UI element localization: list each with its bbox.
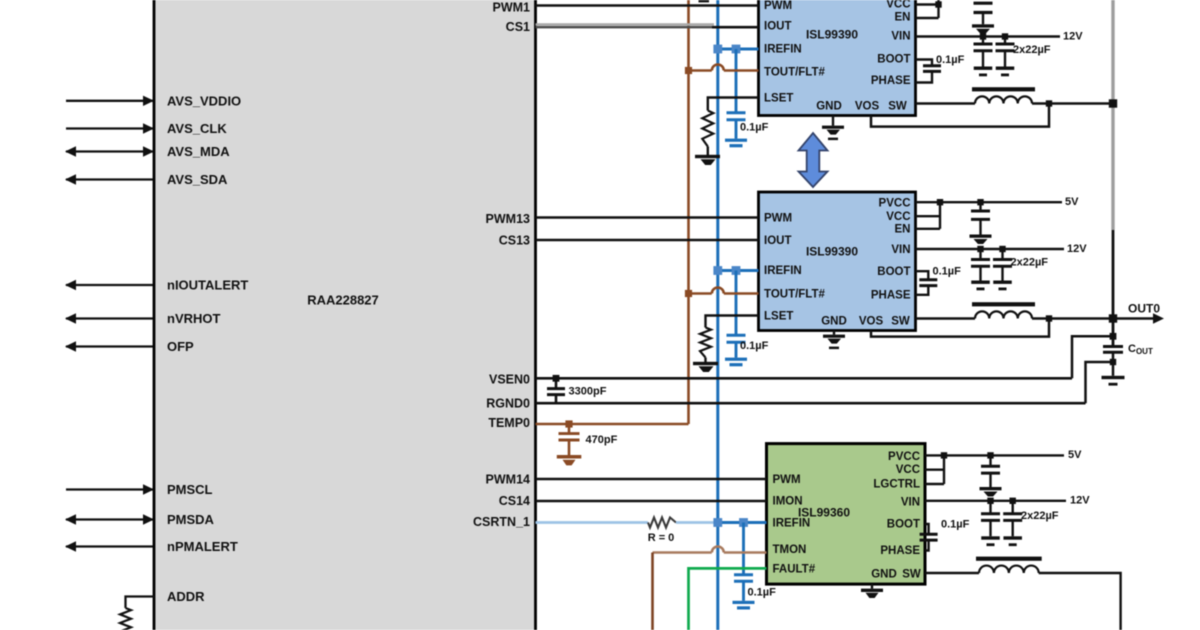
- ground power gnd (U3 GND): [823, 335, 845, 350]
- label ISL99360 (U4): [798, 506, 850, 520]
- pin label RGND0: [486, 397, 530, 411]
- pin label CS1: [506, 20, 530, 34]
- wire hop over blue bus (U3 TOUT): [712, 288, 724, 294]
- pin label TOUT/FLT# (U3): [764, 289, 826, 301]
- svg-text:5V: 5V: [1068, 449, 1082, 461]
- ground signal gnd blue (U2 IREFIN cap): [725, 120, 747, 148]
- pin label OFP: [167, 339, 194, 354]
- svg-text:nIOUTALERT: nIOUTALERT: [167, 278, 248, 293]
- pin label PWM13: [486, 212, 531, 226]
- svg-text:BOOT: BOOT: [877, 54, 910, 66]
- pin label SW (U3): [891, 316, 910, 328]
- svg-text:0.1µF: 0.1µF: [740, 122, 769, 134]
- arrowhead OUT0: [1153, 313, 1164, 323]
- svg-text:PWM: PWM: [764, 0, 792, 12]
- pin label VIN (U3): [891, 244, 910, 256]
- junction IREFIN cap branch (U3): [732, 266, 741, 275]
- wire L14 out: [1039, 573, 1121, 630]
- wire VCC stub (U4): [925, 469, 944, 471]
- wire PWM13 to U3: [536, 216, 759, 218]
- svg-text:470pF: 470pF: [586, 434, 618, 446]
- wire AVS_SDA with arrow: [65, 174, 153, 184]
- pin label PHASE (U3): [871, 290, 911, 302]
- svg-text:CS13: CS13: [499, 234, 530, 248]
- svg-text:PVCC: PVCC: [888, 451, 920, 463]
- wire R-LSET to gnd (U2): [707, 147, 709, 156]
- pin label SW (U2): [888, 101, 907, 113]
- wire TOUT/FLT brown stub (U2): [724, 69, 759, 72]
- net label OUT0: [1128, 302, 1160, 316]
- svg-text:AVS_SDA: AVS_SDA: [167, 172, 228, 187]
- junction VIN cap b (U3): [999, 246, 1005, 252]
- pin label IMON (U4): [773, 496, 803, 508]
- capacitor C-VIN-a 2x22uF (U2): [974, 37, 993, 67]
- pin label ADDR: [167, 589, 205, 604]
- ground power gnd (U2 LSET): [695, 155, 720, 165]
- wire ADDR: [126, 597, 155, 609]
- wire IREFIN blue bus vertical: [716, 0, 719, 630]
- wire PWM1 to U2: [536, 4, 759, 6]
- svg-text:ISL99390: ISL99390: [806, 28, 858, 42]
- svg-text:LSET: LSET: [764, 93, 793, 105]
- svg-text:12V: 12V: [1067, 243, 1087, 255]
- capacitor C-5V (U2) upper plate: [974, 3, 993, 12]
- junction VIN cap b (U2): [1002, 33, 1008, 39]
- wire R-LSET to gnd (U3): [704, 358, 706, 363]
- pin label LGCTRL (U4): [873, 479, 920, 491]
- IC U2 ISL99390 power stage body: [759, 0, 916, 116]
- svg-text:12V: 12V: [1063, 31, 1083, 43]
- svg-text:VIN: VIN: [891, 244, 910, 256]
- value label 0.1uF (U3 IREFIN cap): [740, 340, 769, 352]
- svg-text:CS1: CS1: [506, 20, 530, 34]
- wire VCC/EN bracket vertical (U2): [937, 0, 939, 18]
- svg-text:AVS_MDA: AVS_MDA: [167, 144, 230, 159]
- wire BOOT cap to PHASE (U3): [916, 286, 929, 295]
- junction VIN cap b (U4): [1010, 498, 1016, 504]
- svg-text:PVCC: PVCC: [879, 198, 911, 210]
- pin label PHASE (U4): [880, 545, 920, 557]
- svg-text:COUT: COUT: [1128, 343, 1153, 356]
- pin label PWM1: [493, 1, 531, 15]
- IC U1 RAA228827 controller body: [154, 0, 536, 630]
- wire OUT phase rail gray vertical: [1111, 0, 1114, 230]
- ground bar-dash (U3 VIN cap b): [993, 281, 1012, 291]
- label ISL99390 (U2): [806, 28, 858, 42]
- pin label AVS_VDDIO: [167, 93, 241, 108]
- svg-text:ADDR: ADDR: [167, 589, 205, 604]
- svg-text:2x22µF: 2x22µF: [1011, 257, 1049, 269]
- pin label IREFIN (U4): [773, 518, 811, 530]
- svg-text:OFP: OFP: [167, 339, 194, 354]
- pin label IREFIN (U3): [764, 265, 802, 277]
- capacitor C-IREFIN 0.1uF (U3): [727, 335, 746, 342]
- svg-text:0.1µF: 0.1µF: [748, 587, 777, 599]
- pin label BOOT (U3): [877, 266, 910, 278]
- pin label VCC (U4): [896, 464, 920, 476]
- junction PVCC bracket (U3): [937, 199, 943, 205]
- svg-text:RAA228827: RAA228827: [307, 293, 379, 308]
- wire VIN 12V rail (U4): [925, 500, 1066, 502]
- svg-text:TMON: TMON: [773, 544, 807, 556]
- pin label nVRHOT: [167, 311, 221, 326]
- capacitor C-OUT: [1103, 347, 1123, 353]
- value label 2x22uF (U4): [1021, 510, 1059, 522]
- value label 0.1uF (U2 BOOT): [936, 54, 965, 66]
- svg-text:PWM1: PWM1: [493, 1, 531, 15]
- symbol repeat double-arrow: [799, 133, 828, 187]
- wire LSET (U3): [706, 316, 759, 328]
- junction 470pF on TEMP0: [565, 420, 572, 427]
- svg-text:CS14: CS14: [499, 494, 530, 508]
- resistor R-ADDR (address set): [120, 608, 131, 630]
- pin label LSET (U2): [764, 93, 793, 105]
- junction 5V cap (U3): [977, 199, 983, 205]
- pin label TEMP0: [488, 416, 530, 430]
- junction PVCC bracket (U4): [941, 452, 947, 458]
- svg-text:VOS: VOS: [855, 101, 880, 113]
- pin label VCC (U2): [886, 0, 910, 11]
- wire COUT bottom stem: [1112, 352, 1115, 376]
- capacitor C-IREFIN 0.1uF (U2): [727, 113, 746, 120]
- svg-text:AVS_CLK: AVS_CLK: [167, 121, 227, 136]
- value label 0.1uF (U2 IREFIN cap): [740, 122, 769, 134]
- value label 470pF: [586, 434, 618, 446]
- svg-text:GND: GND: [821, 316, 847, 328]
- value label 0.1uF (U4 BOOT): [941, 519, 970, 531]
- svg-text:AVS_VDDIO: AVS_VDDIO: [167, 93, 241, 108]
- pin label PWM (U3): [764, 213, 792, 225]
- wire LSET (U2): [708, 98, 759, 111]
- svg-text:GND: GND: [871, 569, 897, 581]
- svg-text:PWM: PWM: [773, 474, 801, 486]
- wire PMSCL with arrow: [66, 484, 154, 494]
- svg-text:VSEN0: VSEN0: [489, 373, 530, 387]
- value label 2x22uF (U2): [1013, 44, 1051, 56]
- pin label EN (U2): [895, 12, 911, 24]
- ground power gnd (U3 LSET): [693, 362, 718, 372]
- wire L1 to OUT rail: [1032, 102, 1113, 104]
- pin label BOOT (U2): [877, 54, 910, 66]
- value label 3300pF: [569, 386, 607, 398]
- junction IREFIN bus (U4): [713, 518, 722, 527]
- junction IREFIN cap branch (U2): [732, 45, 741, 54]
- capacitor C-VIN-b 2x22uF (U2): [996, 37, 1015, 67]
- ground power gnd (COUT): [1102, 376, 1125, 386]
- pin label CS14: [499, 494, 530, 508]
- junction VOS sense (U3): [1046, 315, 1052, 321]
- wire VCC stub (U2): [916, 3, 939, 5]
- value label 2x22uF (U3): [1011, 257, 1049, 269]
- svg-text:LGCTRL: LGCTRL: [873, 479, 920, 491]
- label ISL99390 (U3): [806, 245, 858, 259]
- value label 0.1uF (U4 IREFIN cap): [748, 587, 777, 599]
- pin label FAULT# (U4): [773, 564, 816, 576]
- junction VIN cap a (U2): [980, 33, 986, 39]
- pin label TMON (U4): [773, 544, 807, 556]
- pin label AVS_SDA: [167, 172, 228, 187]
- svg-text:IREFIN: IREFIN: [764, 265, 802, 277]
- pin label PMSCL: [167, 482, 213, 497]
- ground power gnd (U2 5V cap): [972, 24, 994, 34]
- wire EN stub (U3): [916, 228, 941, 230]
- junction OUT rail (U2): [1109, 99, 1117, 107]
- wire cap branch vertical (U3): [735, 271, 738, 336]
- wire cap branch vertical (U2): [735, 49, 738, 113]
- pin label PWM14: [486, 473, 531, 487]
- wire IREFIN stub (U4): [718, 521, 767, 524]
- wire CS1 gray lower: [536, 26, 715, 28]
- svg-text:IOUT: IOUT: [764, 21, 791, 33]
- svg-text:VCC: VCC: [896, 464, 920, 476]
- svg-text:PWM13: PWM13: [486, 212, 531, 226]
- inductor L1 (U2): [972, 87, 1035, 103]
- svg-text:TOUT/FLT#: TOUT/FLT#: [764, 67, 826, 79]
- pin label CSRTN_1: [473, 515, 530, 529]
- svg-text:PWM: PWM: [764, 213, 792, 225]
- wire AVS_CLK with arrow: [66, 123, 154, 133]
- svg-text:2x22µF: 2x22µF: [1021, 510, 1059, 522]
- wire TOUT/FLT brown to U3: [689, 292, 712, 295]
- svg-text:PHASE: PHASE: [871, 290, 911, 302]
- junction VCC bracket (U2): [935, 1, 941, 7]
- capacitor C-SEN 3300pF: [547, 378, 565, 403]
- capacitor C-5V (U3): [971, 202, 990, 234]
- svg-text:IMON: IMON: [773, 496, 803, 508]
- svg-text:0.1µF: 0.1µF: [933, 266, 962, 278]
- svg-text:ISL99390: ISL99390: [806, 245, 858, 259]
- wire TMON tan stub: [724, 551, 767, 554]
- wire PWM14 to U4: [536, 478, 767, 480]
- pin label GND (U4): [871, 569, 897, 581]
- svg-text:nVRHOT: nVRHOT: [167, 311, 221, 326]
- pin label IREFIN (U2): [764, 44, 802, 56]
- ground bar-dash (U2 VIN cap b): [996, 67, 1015, 77]
- wire C-5V stem (U2): [982, 13, 984, 25]
- pin label CS13: [499, 234, 530, 248]
- capacitor C-VIN-a 2x22uF (U3): [971, 249, 990, 281]
- ground brown (470pF): [557, 455, 582, 465]
- svg-text:VCC: VCC: [886, 0, 910, 11]
- junction IREFIN bus (U3): [713, 266, 722, 275]
- pin label SW (U4): [902, 569, 921, 581]
- wire CS13 to U3: [536, 239, 759, 241]
- resistor R=0 on CSRTN_1: [648, 518, 676, 528]
- svg-text:SW: SW: [888, 101, 907, 113]
- pin label VSEN0: [489, 373, 530, 387]
- junction VSEN link on rail: [1110, 333, 1117, 340]
- capacitor C-BOOT 0.1uF (U4): [920, 534, 938, 540]
- wire CSRTN_1 light blue: [536, 521, 649, 524]
- svg-text:IREFIN: IREFIN: [764, 44, 802, 56]
- wire CS1 gray upper: [536, 23, 715, 25]
- wire SW stub (U2): [916, 102, 976, 104]
- capacitor C-VIN-b 2x22uF (U3): [993, 249, 1012, 281]
- pin label PMSDA: [167, 512, 215, 527]
- pin label VCC (U3): [886, 211, 910, 223]
- svg-text:0.1µF: 0.1µF: [740, 340, 769, 352]
- pin label EN (U3): [895, 224, 911, 236]
- junction IREFIN cap branch (U4): [739, 518, 748, 527]
- pin label PWM (U2): [764, 0, 792, 12]
- capacitor C-BOOT 0.1uF (U3): [919, 280, 937, 286]
- ground power gnd (U4 GND): [861, 589, 883, 598]
- wire BOOT cap to PHASE (U4): [925, 540, 929, 550]
- svg-text:VIN: VIN: [901, 497, 920, 509]
- ground signal gnd blue (U4 IREFIN cap): [733, 581, 755, 609]
- pin label VOS (U2): [855, 101, 880, 113]
- pin label VIN (U2): [891, 31, 910, 43]
- inductor L14 (U4): [976, 557, 1042, 573]
- wire GND stub (U3): [833, 331, 835, 335]
- svg-text:VIN: VIN: [891, 31, 910, 43]
- wire OFP with arrow: [65, 341, 153, 351]
- capacitor C-TEMP 470pF: [559, 424, 580, 455]
- svg-text:GND: GND: [816, 101, 842, 113]
- ground power gnd (U2 GND): [822, 126, 844, 141]
- svg-text:12V: 12V: [1070, 495, 1090, 507]
- wire SW stub (U4): [925, 572, 979, 574]
- wire VIN 12V rail (U3): [916, 248, 1065, 250]
- wire VCC stub (U3): [916, 215, 941, 217]
- svg-text:3300pF: 3300pF: [569, 386, 607, 398]
- wire L13 to OUT0: [1032, 317, 1157, 319]
- junction RGND link: [1110, 359, 1116, 365]
- svg-text:R = 0: R = 0: [648, 532, 675, 544]
- net label 12V (U3): [1067, 243, 1087, 255]
- wire CS1 black to IOUT: [712, 26, 759, 29]
- wire VCC/LGCTRL bracket (U4): [943, 455, 945, 484]
- svg-text:EN: EN: [895, 224, 911, 236]
- wire TEMP0 brown: [536, 423, 689, 426]
- wire BOOT bracket (U2): [916, 60, 933, 66]
- wire TMON brown vertical: [651, 553, 654, 630]
- svg-text:OUT0: OUT0: [1128, 302, 1160, 316]
- svg-text:0.1µF: 0.1µF: [936, 54, 965, 66]
- pin label IOUT (U2): [764, 21, 791, 33]
- pin label LSET (U3): [764, 311, 793, 323]
- value label 0.1uF (U3 BOOT): [933, 266, 962, 278]
- wire GND stub (U4): [871, 584, 873, 589]
- ground power gnd (U3 5V cap): [970, 235, 992, 245]
- pin label nPMALERT: [167, 539, 238, 554]
- wire VCC/EN bracket vertical (U3): [939, 202, 941, 229]
- IC U4 ISL99360 power stage body: [767, 444, 926, 584]
- junction TOUT brown bus (U2): [685, 67, 692, 74]
- pin label nIOUTALERT: [167, 278, 248, 293]
- pin label IOUT (U3): [764, 235, 791, 247]
- svg-text:BOOT: BOOT: [877, 266, 910, 278]
- net label 5V (U3): [1065, 196, 1079, 208]
- wire CSRTN_1 light blue b: [676, 521, 718, 524]
- wire LGCTRL stub (U4): [925, 483, 944, 485]
- svg-text:nPMALERT: nPMALERT: [167, 539, 238, 554]
- ground signal gnd blue (U3 IREFIN cap): [725, 342, 747, 366]
- wire nIOUTALERT with arrow: [65, 280, 153, 290]
- pin label PVCC (U4): [888, 451, 920, 463]
- svg-text:2x22µF: 2x22µF: [1013, 44, 1051, 56]
- wire nVRHOT with arrow: [65, 313, 153, 323]
- svg-text:VCC: VCC: [886, 211, 910, 223]
- wire VOS return (U3): [871, 319, 1049, 337]
- wire TMON tan: [653, 551, 712, 554]
- svg-text:PWM14: PWM14: [486, 473, 531, 487]
- wire nPMALERT with arrow: [65, 541, 153, 551]
- wire PMSDA with arrow: [65, 514, 154, 524]
- capacitor C-IREFIN 0.1uF (U4): [734, 575, 753, 581]
- wire TEMP/TOUT brown bus vertical: [687, 0, 690, 424]
- svg-text:0.1µF: 0.1µF: [941, 519, 970, 531]
- capacitor C-VIN-a 2x22uF (U4): [981, 501, 1000, 537]
- wire SW stub (U3): [916, 317, 976, 319]
- resistor R-LSET (U3): [700, 328, 711, 358]
- value label R = 0: [648, 532, 675, 544]
- wire hop over blue bus (U2 TOUT): [712, 65, 724, 71]
- svg-text:VOS: VOS: [859, 316, 884, 328]
- svg-text:5V: 5V: [1065, 196, 1079, 208]
- wire FAULT# green: [689, 568, 767, 630]
- pin label VOS (U3): [859, 316, 884, 328]
- wire AVS_MDA with arrow: [65, 146, 154, 156]
- wire BOOT bracket (U4): [925, 524, 929, 534]
- svg-text:RGND0: RGND0: [486, 397, 530, 411]
- pin label TOUT/FLT# (U2): [764, 67, 826, 79]
- capacitor C-BOOT 0.1uF (U2): [923, 66, 941, 72]
- junction 3300pF on VSEN0: [553, 375, 560, 382]
- junction 5V cap (U4): [987, 452, 993, 458]
- ground bar-dash (U3 VIN cap a): [971, 281, 990, 291]
- pin label PHASE (U2): [871, 75, 911, 87]
- svg-text:FAULT#: FAULT#: [773, 564, 816, 576]
- svg-text:BOOT: BOOT: [887, 519, 920, 531]
- wire BOOT bracket (U3): [916, 271, 929, 280]
- wire VSEN0: [536, 377, 1073, 380]
- inductor L13 (U3): [972, 302, 1035, 318]
- svg-text:PMSCL: PMSCL: [167, 482, 213, 497]
- wire VOS return (U2): [871, 104, 1049, 127]
- capacitor C-VIN-b 2x22uF (U4): [1003, 501, 1022, 537]
- pin label VIN (U4): [901, 497, 920, 509]
- pin label AVS_CLK: [167, 121, 227, 136]
- junction VIN cap a (U3): [977, 246, 983, 252]
- junction TOUT brown bus (U3): [685, 290, 692, 297]
- pin label AVS_MDA: [167, 144, 230, 159]
- IC U3 ISL99390 power stage body: [759, 192, 916, 331]
- net label 12V (U2): [1063, 31, 1083, 43]
- pin label BOOT (U4): [887, 519, 920, 531]
- wire hop over blue bus (TMON): [712, 547, 724, 553]
- wire IREFIN stub (U3): [718, 269, 759, 272]
- ground power gnd (U4 5V cap): [980, 487, 1002, 497]
- wire VIN 12V rail (U2): [916, 35, 1061, 37]
- label RAA228827: [307, 293, 379, 308]
- svg-text:LSET: LSET: [764, 311, 793, 323]
- wire RGND0: [536, 402, 1086, 405]
- svg-text:SW: SW: [891, 316, 910, 328]
- svg-text:SW: SW: [902, 569, 921, 581]
- capacitor C-5V (U4): [981, 455, 1000, 487]
- pin label PWM (U4): [773, 474, 801, 486]
- wire IREFIN stub to U2: [718, 48, 759, 51]
- pin label PVCC (U3): [879, 198, 911, 210]
- ground bar-dash (U4 VIN cap a): [981, 536, 1000, 546]
- wire PVCC 5V rail (U3): [916, 201, 1063, 203]
- svg-text:PHASE: PHASE: [871, 75, 911, 87]
- net label 5V (U4): [1068, 449, 1082, 461]
- wire EN stub (U2): [916, 17, 939, 19]
- junction VIN cap a (U4): [987, 498, 993, 504]
- wire BOOT cap to PHASE (U2): [916, 71, 933, 82]
